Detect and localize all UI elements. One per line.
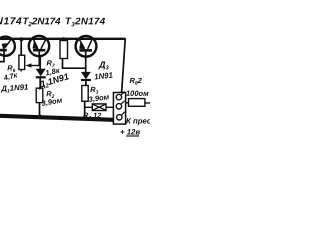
wire R7 to T3 base bbox=[63, 59, 86, 69]
connector pin 3 bbox=[117, 115, 122, 120]
wire rail to R6 bbox=[20, 40, 22, 56]
transistor T2 bbox=[29, 36, 49, 66]
connector box K bbox=[113, 93, 125, 125]
node junction dot R2 on rail bbox=[38, 114, 42, 118]
node junction dot on rail for R6 bbox=[19, 37, 23, 41]
svg-text:N174: N174 bbox=[0, 16, 22, 27]
svg-text:+ 12в: + 12в bbox=[120, 128, 140, 137]
wire right vertical from rail corner to connector box bbox=[122, 38, 126, 92]
resistor R4 body bbox=[92, 104, 106, 111]
svg-text:К прео: К прео bbox=[126, 117, 150, 126]
svg-text:T22N174: T22N174 bbox=[22, 16, 61, 28]
resistor R7 body bbox=[60, 41, 68, 59]
wire top supply rail bbox=[0, 38, 125, 40]
resistor R3 body bbox=[82, 86, 88, 102]
connector pin 2 bbox=[116, 104, 121, 109]
transistor T3 bbox=[76, 36, 97, 72]
wire R4 to connector bbox=[106, 106, 114, 108]
diode D2 bbox=[81, 72, 91, 86]
transistor T1 (cut at left edge) bbox=[0, 37, 15, 62]
diode D1 bbox=[36, 56, 46, 88]
wire connector to R8 bbox=[126, 102, 129, 104]
potentiometer wiper arrow into R6 bbox=[30, 65, 40, 67]
wire R6 bottom stub bbox=[20, 70, 22, 72]
connector pin 1 bbox=[116, 94, 121, 99]
wire R2 to ground rail bbox=[39, 103, 41, 118]
wire R8 to right edge bbox=[145, 102, 150, 104]
wire R3 to R4 bbox=[85, 106, 93, 108]
resistor R2 body bbox=[36, 88, 43, 102]
svg-text:T32N174: T32N174 bbox=[65, 16, 106, 28]
node junction dot on rail above R7 bbox=[62, 37, 66, 41]
resistor R6 body bbox=[19, 55, 25, 69]
wire underline of +12v label bbox=[126, 135, 139, 137]
wire ground rail bbox=[0, 116, 113, 120]
svg-text:100ом: 100ом bbox=[126, 89, 149, 98]
wire R3 to ground rail bbox=[84, 101, 86, 119]
resistor R8 100om body bbox=[129, 99, 145, 107]
